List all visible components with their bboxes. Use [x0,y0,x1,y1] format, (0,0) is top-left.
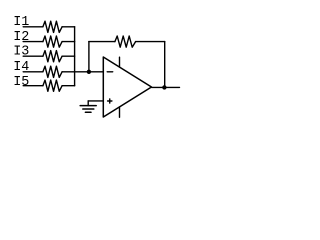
ground symbol [87,101,89,106]
wire I3 input [23,55,43,57]
wire R2 to bus [62,41,75,43]
svg-text:I4: I4 [13,60,29,75]
resistor R2 [43,36,62,47]
wire output [152,86,180,88]
junction output node dot [162,85,166,89]
wire R4 to op-amp inverting input [62,71,103,73]
wire R1 to bus [62,26,75,28]
wire I5 input [23,85,43,87]
op-amp minus input mark [107,71,113,73]
wire I2 input [23,41,43,43]
wire R3 to bus [62,55,75,57]
wire I1 input [23,26,43,28]
wire summing bus vertical [74,27,76,86]
svg-text:I3: I3 [13,45,29,60]
svg-text:I1: I1 [13,15,29,30]
junction inverting node dot [87,70,91,74]
wire feedback left vertical [88,42,90,72]
resistor R3 [43,51,62,62]
op-amp plus input mark [108,99,112,103]
resistor R4 [43,66,62,77]
resistor R5 [43,80,62,91]
wire feedback top left [89,41,115,43]
svg-text:I5: I5 [13,75,29,90]
wire feedback right vertical [164,42,166,88]
op-amp V+ power stub [119,57,121,67]
wire I4 input [23,71,43,73]
resistor R1 [43,21,62,32]
op-amp V- power stub [119,107,121,117]
wire non-inverting input [88,100,103,102]
svg-text:I2: I2 [13,30,29,45]
op-amp U1 triangle [103,57,151,117]
resistor RF feedback [115,36,136,47]
wire R5 to bus [62,85,75,87]
wire feedback top right [136,41,165,43]
